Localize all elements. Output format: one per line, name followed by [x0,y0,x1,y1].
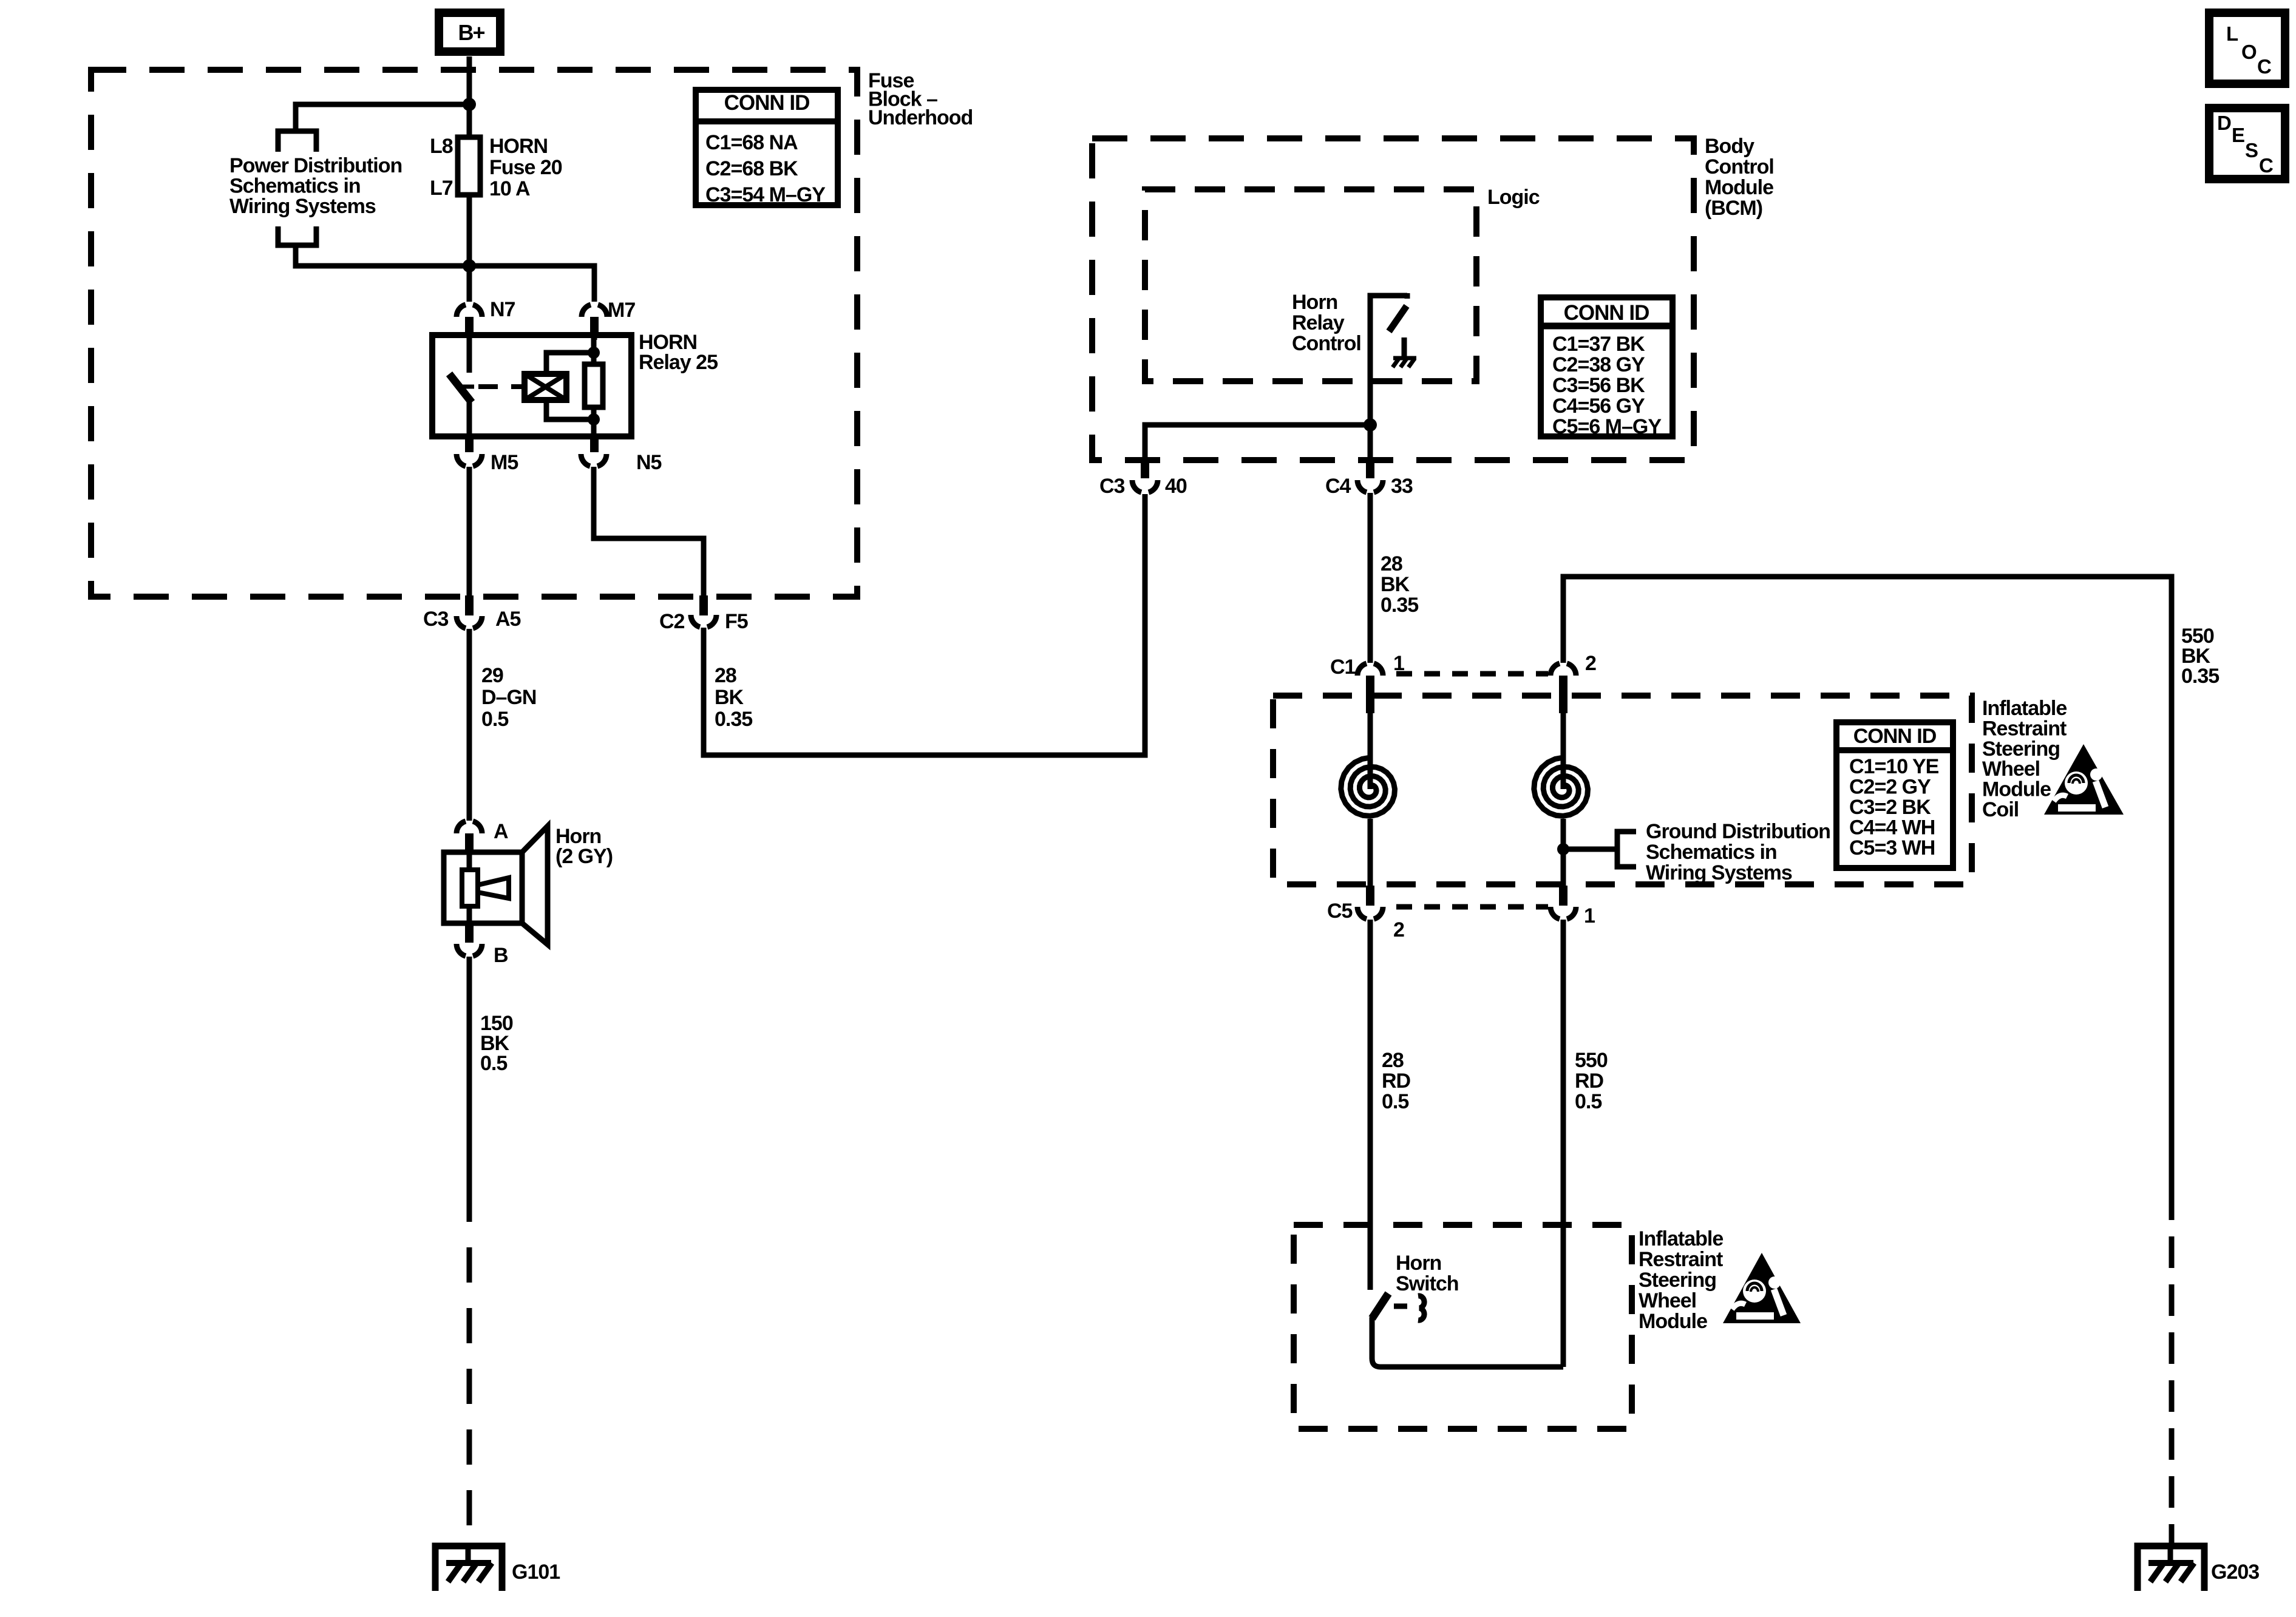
svg-text:CONN ID: CONN ID [724,91,810,115]
wire F5 to BCM C3 40 [704,494,1145,755]
svg-text:C: C [2257,55,2272,78]
svg-text:550: 550 [1575,1049,1608,1072]
svg-text:B: B [494,944,508,967]
label Body Control Module (BCM) [1705,135,1774,220]
svg-text:Control: Control [1292,332,1361,355]
svg-text:Relay: Relay [1292,311,1345,334]
label Horn Switch [1396,1252,1459,1295]
svg-text:C1: C1 [1330,656,1356,679]
svg-text:C2=2 GY: C2=2 GY [1849,776,1931,799]
wire label 550 BK 0.35 [2181,625,2219,688]
wire N5 to C2 F5 [594,467,704,597]
svg-text:Power Distribution: Power Distribution [229,154,402,177]
wire C5 2 to horn switch [1368,920,1373,1290]
svg-text:Schematics in: Schematics in [1646,841,1777,864]
svg-text:C3: C3 [1099,475,1125,498]
svg-text:L7: L7 [430,177,453,200]
relay linkage dashes [478,384,525,389]
svg-text:M7: M7 [608,299,635,322]
fuse block underhood dashed box [91,70,857,597]
svg-text:D–GN: D–GN [481,686,536,709]
svg-text:A: A [494,820,508,843]
label Fuse Block - Underhood [868,69,973,129]
svg-text:C2=38 GY: C2=38 GY [1552,353,1645,376]
svg-text:Coil: Coil [1982,798,2019,821]
power symbol B+ [439,13,500,52]
svg-text:Wheel: Wheel [1639,1289,1696,1312]
svg-text:C4=4 WH: C4=4 WH [1849,816,1935,839]
connector linkage dashes bottom [1396,904,1548,910]
node driver junction [1364,418,1377,432]
svg-text:C4: C4 [1325,475,1351,498]
svg-text:N5: N5 [636,451,662,474]
svg-text:CONN ID: CONN ID [1564,301,1649,325]
svg-text:Steering: Steering [1639,1269,1716,1292]
svg-text:C5=3 WH: C5=3 WH [1849,836,1935,859]
svg-text:B+: B+ [458,20,484,45]
relay switch fixed line [467,335,472,373]
connector M5 [457,436,518,474]
svg-text:(BCM): (BCM) [1705,197,1762,220]
svg-text:(2 GY): (2 GY) [555,845,613,868]
svg-text:RD: RD [1382,1070,1411,1093]
wire label 28 BK 0.35 [715,664,752,731]
svg-text:C2: C2 [659,610,685,633]
connector linkage dashes top [1396,671,1548,677]
svg-text:C3: C3 [423,608,449,631]
connector B [457,923,508,967]
label HORN Relay 25 [639,331,718,374]
label Inflatable Restraint Steering Wheel Module [1639,1227,1723,1333]
node coil bottom [588,413,600,425]
svg-text:Restraint: Restraint [1639,1248,1723,1271]
svg-text:BK: BK [1381,573,1410,596]
wire B to G101 [467,957,472,1187]
svg-text:Relay 25: Relay 25 [639,351,718,374]
relay switch blade [449,374,472,402]
svg-text:Horn: Horn [1396,1252,1441,1275]
relay coil element [525,353,594,419]
conn id table coil [1836,722,1953,868]
svg-text:L: L [2226,22,2238,45]
svg-text:D: D [2217,112,2232,134]
wire fuse to junction 2 [467,195,472,302]
connector A [457,820,508,852]
svg-text:Restraint: Restraint [1982,717,2067,740]
svg-text:L8: L8 [430,135,453,158]
ground distribution bracket [1563,832,1636,867]
BCM dashed box [1092,138,1694,460]
svg-text:Fuse 20: Fuse 20 [489,156,562,179]
connector M7 [582,299,635,333]
inflatable restraint coil dashed box [1273,696,1972,884]
connector N7 [457,298,515,333]
horn switch contact [1372,1293,1563,1367]
svg-text:C1=10 YE: C1=10 YE [1849,755,1939,778]
relay HORN Relay 25 box [432,335,631,436]
svg-text:RD: RD [1575,1070,1604,1093]
wire label 29 D-GN 0.5 [481,664,536,731]
svg-text:C5=6 M–GY: C5=6 M–GY [1552,415,1662,438]
svg-text:O: O [2241,41,2257,63]
clockspring coil right [1534,713,1588,886]
svg-text:Wiring Systems: Wiring Systems [1646,861,1792,884]
wire junction to power distribution bracket [296,104,469,131]
svg-text:0.5: 0.5 [1382,1090,1408,1113]
svg-text:Switch: Switch [1396,1272,1459,1295]
wire 1 to horn switch [1561,920,1566,1367]
svg-text:BK: BK [715,686,744,709]
connector 2 [1550,652,1596,713]
label Ground Distribution Schematics in Wiring Systems [1646,820,1830,884]
svg-text:29: 29 [481,664,503,687]
connector C3 40 [1099,460,1187,498]
conn id table fuse block [696,90,838,206]
svg-text:C2=68 BK: C2=68 BK [705,157,798,180]
svg-text:28: 28 [1382,1049,1404,1072]
label Inflatable Restraint Steering Wheel Module Coil [1982,697,2067,821]
svg-text:C: C [2259,154,2274,177]
svg-text:Underhood: Underhood [868,106,973,129]
svg-text:33: 33 [1391,475,1413,498]
connector C5 2 [1327,886,1404,941]
svg-text:M5: M5 [491,451,518,474]
connector N5 [581,436,662,474]
svg-text:Logic: Logic [1487,186,1540,209]
svg-text:0.5: 0.5 [480,1052,507,1075]
horn switch dashed box [1294,1225,1632,1429]
svg-text:0.5: 0.5 [1575,1090,1601,1113]
svg-text:Schematics in: Schematics in [229,175,361,198]
conn id table BCM [1541,297,1673,438]
wire M7 through resistor branch [591,335,597,436]
svg-text:C5: C5 [1327,900,1353,923]
svg-text:N7: N7 [490,298,515,321]
relay switch contact tick [461,385,474,389]
svg-text:HORN: HORN [489,135,548,158]
airbag warning triangle coil [2044,744,2124,815]
wire bracket to relay feed rail [296,245,594,302]
svg-text:F5: F5 [725,610,748,633]
svg-text:G203: G203 [2211,1561,2259,1584]
power distribution bracket bottom [278,226,316,245]
wire B+ down to fuse [467,56,472,137]
svg-text:2: 2 [1585,652,1596,675]
svg-text:C1=68 NA: C1=68 NA [705,131,798,154]
svg-text:A5: A5 [495,608,521,631]
svg-text:0.35: 0.35 [1381,594,1418,617]
label Horn (2 GY) [555,825,613,868]
svg-text:Steering: Steering [1982,737,2060,761]
svg-text:Inflatable: Inflatable [1982,697,2067,720]
connector C1 1 [1330,652,1404,713]
wire M7 into relay [592,333,597,340]
svg-text:1: 1 [1584,904,1595,927]
ground G203 [2138,1546,2259,1591]
logic dashed box [1145,189,1476,381]
power distribution bracket top [278,131,316,152]
wire C4 to coil connector 1 [1368,493,1373,663]
node ground distribution tap [1557,843,1569,855]
connector C2 F5 [659,595,748,633]
wire label 28 BK 0.35 at C4 [1381,552,1418,617]
svg-text:Module: Module [1982,778,2051,801]
svg-text:40: 40 [1165,475,1187,498]
horn component [444,826,548,944]
svg-text:10 A: 10 A [489,177,530,200]
label Horn Relay Control [1292,291,1361,355]
node junction 2 [463,259,476,273]
svg-text:C3=54 M–GY: C3=54 M–GY [705,183,826,206]
BCM internal ground [1393,337,1416,367]
svg-text:Wheel: Wheel [1982,758,2040,781]
svg-text:Module: Module [1705,176,1773,199]
wire label 550 RD 0.5 [1575,1049,1608,1113]
svg-text:Ground Distribution: Ground Distribution [1646,820,1830,843]
svg-text:Module: Module [1639,1310,1707,1333]
horn relay control driver [1370,293,1407,425]
svg-text:CONN ID: CONN ID [1853,725,1937,748]
connector C4 33 [1325,460,1413,498]
connector C3 A5 [423,595,521,631]
svg-text:2: 2 [1393,918,1404,941]
svg-text:Inflatable: Inflatable [1639,1227,1723,1250]
wire coil connector 2 to right rail [1563,577,2172,1188]
svg-text:28: 28 [1381,552,1402,575]
svg-text:Body: Body [1705,135,1754,158]
svg-text:G101: G101 [512,1561,560,1584]
svg-text:C3=56 BK: C3=56 BK [1552,374,1645,397]
label Power Distribution Schematics in Wiring Systems [229,154,402,218]
svg-text:C1=37 BK: C1=37 BK [1552,333,1645,356]
wire blade to M5 [467,401,472,436]
svg-text:E: E [2232,124,2245,146]
node junction at fuse feed [463,98,476,111]
svg-text:0.5: 0.5 [481,708,508,731]
wire A5 to horn connector A [467,629,472,821]
clockspring coil left [1341,713,1395,886]
wire label 28 RD 0.5 [1382,1049,1411,1113]
ground G101 [435,1546,560,1591]
svg-text:Horn: Horn [1292,291,1337,314]
airbag warning triangle horn switch [1723,1253,1801,1323]
svg-text:S: S [2245,139,2258,161]
label HORN Fuse 20 10 A [489,135,562,200]
wire driver to C3 and C4 [1145,425,1370,460]
svg-text:28: 28 [715,664,736,687]
wire right rail dashed to G203 [2169,1188,2175,1546]
wire M5 to C3 A5 [467,467,472,597]
node coil top [588,347,600,359]
wire label 150 BK 0.5 [480,1012,513,1075]
relay coil resistor [585,364,603,407]
svg-text:0.35: 0.35 [715,708,752,731]
loc icon [2209,13,2285,84]
desc icon [2209,108,2285,179]
fuse HORN Fuse 20 10A [458,137,480,195]
wire N7 into relay [467,333,472,340]
svg-text:Control: Control [1705,155,1774,178]
svg-text:C3=2 BK: C3=2 BK [1849,796,1931,819]
svg-text:Wiring Systems: Wiring Systems [229,195,376,218]
svg-text:0.35: 0.35 [2181,665,2219,688]
connector 1 bottom [1550,886,1595,927]
svg-text:C4=56 GY: C4=56 GY [1552,395,1645,418]
